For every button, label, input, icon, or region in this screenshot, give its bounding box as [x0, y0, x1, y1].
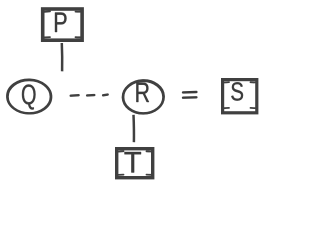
label Q [22, 84, 36, 109]
box T [117, 149, 153, 178]
label T [125, 152, 142, 173]
label R [136, 83, 149, 102]
box P [43, 9, 82, 40]
wire R to T [132, 115, 135, 142]
label S [231, 82, 243, 100]
node R [122, 79, 165, 114]
label P [55, 13, 67, 33]
equals sign [183, 92, 196, 98]
dashed wire Q-R [71, 95, 108, 96]
wire P down [61, 43, 64, 71]
box S [223, 80, 257, 113]
node Q [6, 79, 52, 115]
